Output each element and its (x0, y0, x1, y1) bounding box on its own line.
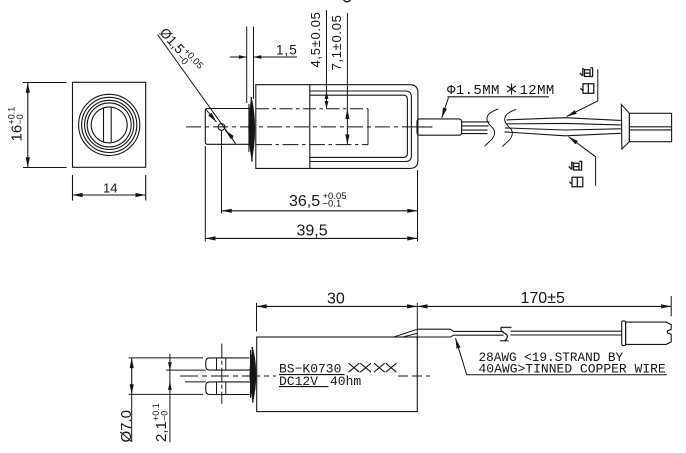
bottom sleeve bottom line (417, 336, 450, 338)
svg-text:Φ1.5MM: Φ1.5MM (447, 83, 500, 99)
svg-text:40AWG>TINNED COPPER WIRE: 40AWG>TINNED COPPER WIRE (479, 361, 666, 376)
svg-text:14: 14 (103, 180, 117, 195)
leader arrowhead toward hole upper (206, 110, 216, 122)
dimension 30/170 shared extension line (416, 303, 418, 340)
hole diameter leader text (155, 24, 206, 77)
bottom view bottom prong (206, 382, 250, 395)
dim text phi 7.0 (118, 410, 135, 443)
svg-text:36,5: 36,5 (289, 193, 320, 210)
dimension 170 dim line (417, 305, 671, 307)
connector mid line 1 (629, 126, 671, 128)
flange tail spikes (250, 97, 253, 162)
dim text 7,1 (329, 14, 344, 70)
plunger left extension line down (204, 146, 206, 242)
bottom flange tail spikes (251, 347, 254, 403)
wire lines right section (507, 118, 621, 121)
dimension 2,1 top arrow (169, 361, 171, 371)
prong hole edge lines bottom prong (216, 382, 218, 395)
bottom wire break symbol (500, 327, 512, 341)
front view concentric circle 4 (87, 103, 131, 147)
svg-text:−0: −0 (160, 411, 170, 421)
dimension 30 dim line (257, 305, 418, 307)
wire exit wedge line 1 (394, 329, 417, 337)
svg-text:170±5: 170±5 (521, 290, 565, 307)
bottom view centerline right part (398, 375, 430, 377)
front view inner circle (91, 107, 127, 143)
dimension 170 extension line right (670, 296, 672, 316)
front view slot line right (110, 108, 112, 143)
svg-text:2,1: 2,1 (153, 421, 170, 442)
svg-text:16: 16 (8, 125, 25, 142)
dimension 7,1 arrows (346, 109, 348, 145)
side view plunger outline (205, 109, 252, 145)
dimension 14 extension line left (72, 175, 74, 201)
side view body outer outline (256, 85, 418, 169)
svg-text:4,5±0.05: 4,5±0.05 (308, 11, 323, 67)
dimension 30 extension line left (256, 303, 258, 332)
bottom view centerline left part (180, 375, 276, 377)
dimension 4,5 arrows (326, 91, 328, 109)
dim text 4,5 (308, 11, 323, 67)
bottom view flange solid lens (250, 350, 255, 400)
flange edge small lines (250, 350, 252, 398)
svg-text:Ø7.0: Ø7.0 (118, 410, 135, 443)
bottom connector cap (622, 321, 626, 346)
dimension 14 dim line with arrows (73, 194, 146, 196)
label leader for sleeve (442, 98, 449, 118)
front view slot line left (103, 108, 105, 142)
svg-text:−0: −0 (15, 114, 25, 124)
bottom wire color label leader (569, 137, 596, 186)
bottom wire top line right (511, 330, 622, 332)
top wire color label leader (567, 69, 598, 116)
svg-text:7,1±0.05: 7,1±0.05 (329, 14, 344, 70)
dim text 16 with tolerance (6, 107, 25, 142)
side view flange (solid lens) (249, 100, 254, 158)
partial cropped character at top (344, 0, 351, 2)
leader arrowhead toward hole lower (225, 130, 233, 138)
wire spec leader line (456, 338, 667, 375)
body right extension line down (417, 170, 419, 242)
dimension phi7 extension top (129, 357, 203, 359)
connector housing rectangle (629, 113, 671, 141)
bottom view top prong (206, 358, 250, 370)
svg-text:40hm: 40hm (330, 374, 361, 389)
dimension phi7 line extends down (131, 394, 133, 442)
wire sleeve stadium (417, 119, 462, 135)
connector mid line 2 (629, 129, 671, 131)
svg-text:39,5: 39,5 (297, 222, 328, 239)
XXXX marks (349, 363, 360, 372)
slot extension line bottom (185, 381, 206, 383)
dimension 1,5 right shelf line (254, 56, 298, 58)
dimension 7,1 line (346, 13, 348, 109)
prong hole edge lines top prong (216, 358, 218, 370)
svg-text:−0.1: −0.1 (323, 199, 342, 210)
side view tube outline outer (310, 91, 412, 162)
body label underline 1 (279, 374, 345, 376)
front view concentric circle 2 (82, 97, 137, 152)
wire break curve 1 (485, 109, 499, 146)
dimension phi7 extension bottom (129, 393, 203, 395)
wire exit wedge line 2 (403, 333, 417, 337)
body label underline 2 (279, 386, 329, 388)
front view concentric circle 1 (79, 94, 140, 155)
dimension phi7 dim line (131, 358, 133, 395)
svg-text:1,5: 1,5 (276, 43, 298, 58)
dimension 2,1 vertical line (169, 354, 171, 443)
dimension 16 dim line with arrows (27, 83, 29, 168)
hidden plunger top line (dash-dot) (256, 108, 368, 110)
label underline for sleeve (448, 96, 550, 98)
bottom wire top line left (454, 330, 504, 332)
side view tube front edge vertical (309, 85, 311, 169)
bottom wire bottom line left (454, 334, 504, 336)
sleeve centerline stub (417, 126, 432, 128)
svg-text:12MM: 12MM (520, 83, 555, 99)
bottom sleeve right chamfer bottom (451, 335, 454, 337)
dimension 16 extension line top (23, 82, 67, 84)
wire lines left section (462, 121, 490, 123)
white color label top (bai se) (580, 68, 594, 93)
bottom view body rectangle (257, 337, 418, 412)
slot extension line top (166, 369, 206, 371)
side view tube outline inner (310, 95, 408, 157)
dimension 39,5 dim line (205, 237, 417, 239)
dimension 2,1 bottom arrow (169, 382, 171, 392)
svg-text:30: 30 (327, 291, 345, 308)
front view square body outline (73, 82, 146, 167)
leader line for hole diameter (158, 35, 236, 144)
bottom connector housing with notch (626, 322, 672, 344)
dimension 14 extension line right (145, 175, 147, 201)
flange edge line left (248, 104, 250, 152)
connector flare trapezoid (621, 105, 629, 150)
dimension 1,5 left arrow line (230, 56, 247, 58)
dim text 2,1 with tolerance (151, 403, 170, 442)
label asterisk star (507, 84, 516, 95)
prong hole vertical centerline (221, 344, 223, 404)
front view concentric circle 3 (85, 100, 134, 149)
wire break curve 2 (502, 109, 516, 146)
dimension 4,5 line (326, 10, 328, 91)
hole vertical extension line down (221, 131, 223, 214)
bottom sleeve right chamfer top (451, 329, 454, 331)
side view plunger hole circle (218, 124, 225, 131)
flange extension line right for 1,5 (253, 27, 255, 100)
white color label bottom (bai se) (569, 161, 583, 186)
hidden plunger end vertical line (367, 109, 369, 145)
flange extension line left for 1,5 (246, 27, 248, 104)
dimension 16 extension line bottom (23, 167, 67, 169)
dimension 36,5 dim line (222, 210, 418, 212)
bottom wire bottom line right (511, 334, 622, 336)
bottom sleeve top line (417, 328, 451, 330)
hidden plunger bottom line (dash-dot) (256, 144, 368, 146)
side view horizontal centerline (186, 126, 433, 128)
